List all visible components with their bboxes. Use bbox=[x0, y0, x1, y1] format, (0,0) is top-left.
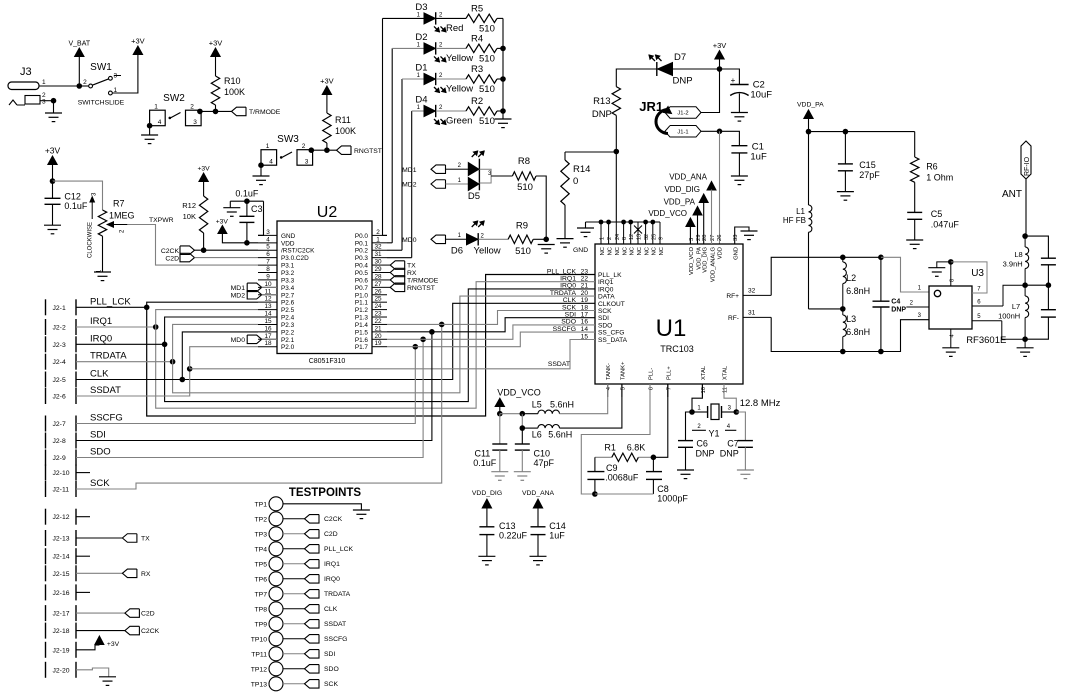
svg-text:U2: U2 bbox=[317, 204, 338, 221]
svg-text:6.8K: 6.8K bbox=[627, 443, 646, 453]
net flag C2D bbox=[305, 530, 320, 539]
svg-text:R8: R8 bbox=[518, 156, 530, 167]
svg-text:D2: D2 bbox=[415, 32, 427, 43]
inductor L6 5.6nH bbox=[522, 427, 538, 429]
svg-text:+3V: +3V bbox=[131, 37, 145, 46]
net flag C2D bbox=[180, 253, 195, 262]
wire SSCFG J2-7 to U2 P1.7 and U1 SS_CFG bbox=[76, 347, 415, 424]
U2 pin 11 P2.7 bbox=[258, 294, 277, 296]
wire J2-12 stub bbox=[76, 516, 90, 518]
U3 pin 5 to bottom node bbox=[972, 320, 1002, 322]
wire SDI J2-8 to U2 P1.5 and U1 SDI bbox=[76, 332, 432, 441]
svg-text:1: 1 bbox=[154, 104, 158, 111]
ground bbox=[141, 134, 158, 136]
svg-text:SSCFG: SSCFG bbox=[324, 636, 347, 643]
svg-text:J2-4: J2-4 bbox=[53, 359, 66, 366]
net flag TX bbox=[390, 261, 405, 270]
svg-text:TP3: TP3 bbox=[255, 531, 268, 538]
net flag MD0 bbox=[247, 335, 262, 344]
svg-text:C2CK: C2CK bbox=[161, 248, 180, 255]
svg-text:VDD_PA: VDD_PA bbox=[696, 247, 702, 270]
inductor L1 HF FB bbox=[808, 132, 810, 205]
svg-text:MD2: MD2 bbox=[402, 182, 417, 189]
inductor L8 3.9nH bbox=[1024, 236, 1026, 247]
wire RF- rail bbox=[771, 317, 843, 351]
wire SW2 pin2 node bbox=[200, 110, 232, 112]
svg-text:RF-: RF- bbox=[728, 315, 739, 322]
svg-text:J2-11: J2-11 bbox=[53, 487, 70, 494]
svg-text:J2-8: J2-8 bbox=[53, 438, 66, 445]
testpoint TP11 bbox=[269, 647, 283, 661]
inductor L3 6.8nH bbox=[843, 315, 847, 337]
wire D7 to R13 bbox=[616, 69, 657, 87]
svg-text:TP7: TP7 bbox=[255, 591, 268, 598]
svg-text:+3V: +3V bbox=[197, 166, 210, 173]
svg-text:33: 33 bbox=[733, 235, 739, 241]
LED D1 Yellow bbox=[424, 73, 435, 84]
wire IRQ1 J2-2 to U2 P2.5 and U1 IRQ1 bbox=[76, 326, 156, 328]
svg-text:J2-16: J2-16 bbox=[53, 590, 70, 597]
ground bbox=[906, 239, 923, 241]
svg-text:P0.2: P0.2 bbox=[355, 248, 369, 255]
capacitor C14 1uF bbox=[531, 526, 546, 528]
svg-text:8: 8 bbox=[266, 266, 270, 273]
svg-text:P0.7: P0.7 bbox=[355, 285, 369, 292]
svg-text:24: 24 bbox=[615, 234, 621, 240]
U2 pin 21 P1.5 bbox=[372, 331, 387, 333]
U2 pin 32 P0.2 bbox=[372, 249, 387, 251]
svg-text:1000pF: 1000pF bbox=[657, 494, 688, 504]
svg-text:NC: NC bbox=[659, 247, 665, 255]
wire J2-14 stub bbox=[76, 555, 90, 557]
svg-text:R14: R14 bbox=[573, 164, 590, 175]
svg-text:P0.5: P0.5 bbox=[355, 270, 369, 277]
svg-text:C14: C14 bbox=[549, 521, 566, 531]
wire R9 to ground bbox=[533, 238, 546, 240]
wire D6 to R9 bbox=[479, 238, 509, 240]
svg-text:VDD_ANALG: VDD_ANALG bbox=[710, 247, 716, 283]
svg-text:R1: R1 bbox=[604, 443, 616, 453]
U1 NC pin 13 bbox=[637, 222, 639, 244]
no-connect X on pin 13 bbox=[634, 226, 642, 234]
svg-text:0: 0 bbox=[573, 176, 578, 187]
svg-text:VDD_PA: VDD_PA bbox=[797, 102, 824, 109]
svg-text:Green: Green bbox=[446, 116, 472, 127]
net flag CLK bbox=[305, 605, 320, 614]
ground bbox=[223, 207, 240, 209]
svg-text:SSCFG: SSCFG bbox=[90, 413, 123, 424]
resistor R14 0 bbox=[564, 152, 566, 160]
svg-text:D3: D3 bbox=[415, 2, 427, 13]
svg-text:J2-10: J2-10 bbox=[53, 470, 70, 477]
svg-text:TP9: TP9 bbox=[255, 621, 268, 628]
U2 pin 25 P1.1 bbox=[372, 301, 387, 303]
svg-text:SDO: SDO bbox=[561, 319, 576, 326]
wire SW1 to +3V bbox=[112, 60, 138, 93]
svg-text:SWITCHSLIDE: SWITCHSLIDE bbox=[78, 100, 125, 107]
RF transceiver U1 TRC103 bbox=[595, 244, 743, 384]
svg-text:5: 5 bbox=[620, 387, 626, 390]
svg-text:P0.1: P0.1 bbox=[355, 240, 369, 247]
svg-text:6: 6 bbox=[266, 251, 270, 258]
ground bbox=[514, 471, 531, 473]
svg-text:1: 1 bbox=[42, 79, 46, 86]
svg-text:3: 3 bbox=[193, 119, 197, 126]
net flag MD1 bbox=[431, 165, 446, 174]
svg-text:24: 24 bbox=[374, 303, 382, 310]
net flag SSDAT bbox=[305, 620, 320, 629]
svg-text:SDI: SDI bbox=[565, 312, 576, 319]
resistor R4 510 bbox=[466, 44, 497, 52]
svg-text:P1.7: P1.7 bbox=[355, 344, 369, 351]
svg-text:TP8: TP8 bbox=[255, 606, 268, 613]
svg-text:CLK: CLK bbox=[90, 369, 109, 380]
wire VDD_PA rail bbox=[809, 131, 915, 133]
svg-text:RX: RX bbox=[407, 270, 417, 277]
svg-text:2: 2 bbox=[83, 79, 87, 86]
wire top rail to U3 pin1 bbox=[881, 257, 929, 292]
svg-text:CLOCKWISE: CLOCKWISE bbox=[88, 222, 94, 258]
svg-text:9: 9 bbox=[266, 273, 270, 280]
wire PLL_LCK J2-1 to U2 P2.6 and U1 PLL_LK bbox=[76, 306, 147, 308]
U2 pin 1 P0.1 bbox=[372, 242, 387, 244]
svg-text:SSDAT: SSDAT bbox=[90, 385, 121, 396]
wire U1 XTAL11 to Y1 bbox=[724, 384, 736, 412]
wire SDO J2-9 to U2 P1.6 and U1 SDO bbox=[76, 339, 423, 457]
U1 NC pin 24 bbox=[615, 222, 617, 244]
svg-text:P3.3: P3.3 bbox=[281, 277, 295, 284]
net flag TX bbox=[76, 537, 122, 539]
LED D4 Green bbox=[424, 105, 435, 116]
svg-text:P2.4: P2.4 bbox=[281, 315, 295, 322]
svg-text:29: 29 bbox=[374, 266, 382, 273]
svg-text:R11: R11 bbox=[335, 115, 351, 125]
svg-text:510: 510 bbox=[479, 116, 495, 127]
net flag C2CK bbox=[180, 246, 195, 255]
svg-text:DNP: DNP bbox=[592, 109, 612, 120]
svg-text:TANK-: TANK- bbox=[606, 363, 612, 380]
svg-text:C5: C5 bbox=[931, 209, 943, 219]
U2 pin 12 P2.6 bbox=[258, 301, 277, 303]
svg-text:J2-1: J2-1 bbox=[53, 305, 66, 312]
U2 pin 29 P0.5 bbox=[372, 272, 387, 274]
svg-text:VDD_ANA: VDD_ANA bbox=[522, 490, 555, 497]
wire RF-IO to antenna node bbox=[1025, 179, 1027, 236]
ground bbox=[353, 509, 370, 511]
svg-text:P2.5: P2.5 bbox=[281, 307, 295, 314]
svg-text:PLL_LCK: PLL_LCK bbox=[324, 546, 354, 553]
wire C2D to U2 pin6 bbox=[195, 257, 259, 259]
svg-text:DNP: DNP bbox=[696, 449, 715, 459]
svg-text:100K: 100K bbox=[335, 126, 356, 136]
svg-text:21: 21 bbox=[374, 325, 382, 332]
svg-text:VDD: VDD bbox=[717, 247, 723, 259]
U2 pin 4 VDD bbox=[258, 242, 277, 244]
svg-text:100nH: 100nH bbox=[998, 312, 1020, 321]
ground bbox=[737, 469, 754, 471]
svg-text:C2CK: C2CK bbox=[324, 516, 343, 523]
jumper arc bbox=[656, 110, 668, 134]
U2 pin 10 P3.4 bbox=[258, 286, 277, 288]
wire bottom rail to U3 pin3 bbox=[881, 320, 929, 352]
svg-text:5.6nH: 5.6nH bbox=[548, 430, 572, 440]
net flag SCK bbox=[305, 680, 320, 689]
wire D3 to R5 bbox=[436, 17, 466, 19]
svg-text:P3.4: P3.4 bbox=[281, 285, 295, 292]
svg-text:PLL+: PLL+ bbox=[666, 366, 672, 380]
svg-text:100K: 100K bbox=[224, 87, 245, 97]
svg-text:TANK+: TANK+ bbox=[620, 361, 626, 380]
svg-text:TP1: TP1 bbox=[255, 501, 268, 508]
svg-text:V_BAT: V_BAT bbox=[68, 41, 90, 48]
svg-text:10: 10 bbox=[264, 281, 272, 288]
svg-text:13: 13 bbox=[637, 234, 643, 240]
svg-text:P0.4: P0.4 bbox=[355, 263, 369, 270]
wire VDD node to C1 bbox=[720, 131, 740, 145]
dual LED D5 bbox=[468, 163, 479, 176]
ground bbox=[677, 469, 694, 471]
balun U3 RF3601E bbox=[929, 286, 972, 329]
wire MD1 to D5 pin2 bbox=[446, 168, 462, 170]
svg-text:SW2: SW2 bbox=[163, 93, 185, 104]
wire J3 pin1 to SW1 bbox=[39, 85, 79, 87]
resistor R6 1 Ohm bbox=[914, 132, 916, 157]
svg-text:MD2: MD2 bbox=[231, 292, 246, 299]
net flag IRQ0 bbox=[305, 575, 320, 584]
testpoint TP8 bbox=[269, 602, 283, 616]
ground for NC rail bbox=[585, 222, 587, 228]
svg-text:5.6nH: 5.6nH bbox=[550, 399, 574, 409]
svg-text:P0.3: P0.3 bbox=[355, 255, 369, 262]
power flag +3V bbox=[48, 156, 57, 165]
wire SCK J2-11 to U2 P1.4 and U1 SCK bbox=[76, 324, 442, 489]
svg-text:16: 16 bbox=[264, 325, 272, 332]
svg-text:R10: R10 bbox=[224, 76, 241, 86]
capacitor C12 0.1uF bbox=[52, 181, 54, 198]
svg-text:11: 11 bbox=[723, 387, 729, 393]
ground bbox=[478, 555, 495, 557]
wire TXPWR to U2 P3.1 bbox=[127, 225, 258, 266]
svg-text:J2-2: J2-2 bbox=[53, 325, 66, 332]
net flag TRDATA bbox=[305, 590, 320, 599]
svg-text:J1-2: J1-2 bbox=[677, 111, 688, 117]
svg-text:C2D: C2D bbox=[165, 256, 179, 263]
U2 pin 3 GND bbox=[258, 234, 277, 236]
svg-text:P2.0: P2.0 bbox=[281, 344, 295, 351]
capacitor antenna bottom bbox=[1047, 285, 1049, 310]
testpoint TP13 bbox=[269, 677, 283, 691]
U2 pin 27 P0.7 bbox=[372, 286, 387, 288]
wire R13 to NC rail bbox=[615, 115, 617, 222]
svg-text:0.22uF: 0.22uF bbox=[499, 531, 528, 541]
svg-text:D5: D5 bbox=[468, 191, 480, 202]
svg-text:VDD_PA: VDD_PA bbox=[664, 198, 696, 207]
svg-text:J2-19: J2-19 bbox=[53, 647, 70, 654]
svg-text:T/RMODE: T/RMODE bbox=[407, 277, 439, 284]
svg-text:25: 25 bbox=[651, 234, 657, 240]
power flag +3V bbox=[133, 46, 142, 55]
ground bbox=[45, 112, 62, 114]
svg-text:.0068uF: .0068uF bbox=[605, 473, 639, 483]
svg-text:VDD_DIG: VDD_DIG bbox=[664, 185, 700, 194]
svg-text:P0.6: P0.6 bbox=[355, 277, 369, 284]
svg-text:25: 25 bbox=[374, 296, 382, 303]
svg-text:IRQ0: IRQ0 bbox=[324, 576, 340, 583]
svg-text:0.1uF: 0.1uF bbox=[64, 201, 88, 211]
wire D2 to R4 bbox=[436, 47, 466, 49]
svg-text:SDI: SDI bbox=[324, 651, 335, 658]
svg-text:R6: R6 bbox=[926, 162, 938, 172]
net flag SDO bbox=[305, 665, 320, 674]
resistor R5 510 bbox=[466, 14, 497, 22]
capacitor C7 DNP bbox=[736, 412, 745, 441]
wire U1 XTAL10 to Y1 bbox=[692, 384, 702, 412]
ground bbox=[1017, 347, 1034, 349]
svg-text:510: 510 bbox=[479, 84, 495, 95]
svg-text:NC: NC bbox=[644, 247, 650, 255]
LED D6 Yellow bbox=[467, 234, 478, 245]
svg-text:28: 28 bbox=[702, 235, 708, 241]
net flag PLL_LCK bbox=[305, 545, 320, 554]
ground bbox=[538, 244, 555, 246]
svg-text:ANT: ANT bbox=[1002, 189, 1022, 200]
svg-text:L2: L2 bbox=[846, 273, 856, 283]
svg-text:22: 22 bbox=[374, 318, 382, 325]
U2 pin 18 P2.0 bbox=[258, 346, 277, 348]
svg-text:+3V: +3V bbox=[216, 219, 229, 226]
svg-text:PLL_LCK: PLL_LCK bbox=[547, 268, 577, 275]
U3 pin 8 and 7 to ground bbox=[950, 262, 952, 286]
svg-text:27: 27 bbox=[710, 235, 716, 241]
svg-text:IRQ0: IRQ0 bbox=[90, 333, 112, 344]
capacitor C10 47pF bbox=[521, 428, 523, 444]
svg-text:IRQ1: IRQ1 bbox=[598, 279, 614, 286]
inductor L2 6.8nH bbox=[843, 262, 847, 284]
capacitor C6 DNP bbox=[686, 412, 693, 441]
wire IRQ0 J2-3 to U2 P2.4 and U1 IRQ0 bbox=[76, 343, 165, 345]
svg-text:TX: TX bbox=[407, 263, 416, 270]
wire U1 PLL- to loop filter bbox=[581, 384, 650, 494]
svg-text:C2D: C2D bbox=[324, 531, 338, 538]
svg-text:J2-17: J2-17 bbox=[53, 611, 70, 618]
svg-text:R7: R7 bbox=[113, 199, 125, 209]
svg-text:+3V: +3V bbox=[320, 77, 334, 86]
wire VDD node down to U1 VDD pin bbox=[719, 131, 721, 244]
U1 NC pin 2 bbox=[608, 222, 610, 244]
svg-text:2: 2 bbox=[190, 104, 194, 111]
svg-text:47pF: 47pF bbox=[534, 458, 555, 468]
svg-text:2: 2 bbox=[607, 237, 613, 240]
svg-text:C15: C15 bbox=[859, 160, 876, 170]
ground bbox=[530, 555, 547, 557]
svg-text:MD1: MD1 bbox=[231, 285, 246, 292]
svg-text:3: 3 bbox=[266, 229, 270, 236]
svg-text:PLL_LK: PLL_LK bbox=[598, 272, 622, 279]
testpoint TP2 bbox=[269, 512, 283, 526]
svg-text:R4: R4 bbox=[471, 33, 483, 44]
net flag MD1 bbox=[247, 283, 262, 292]
svg-text:TP5: TP5 bbox=[255, 561, 268, 568]
svg-text:28: 28 bbox=[374, 273, 382, 280]
testpoint TP6 bbox=[269, 572, 283, 586]
svg-text:MD0: MD0 bbox=[231, 337, 246, 344]
svg-text:31: 31 bbox=[748, 310, 756, 317]
svg-text:RF-IO: RF-IO bbox=[1024, 156, 1031, 176]
wire TRDATA J2-4 to U2 P2.3 and U1 DATA bbox=[76, 361, 173, 363]
power flag +3V at J2-19 bbox=[76, 645, 95, 650]
ground bbox=[44, 224, 61, 226]
svg-text:P2.7: P2.7 bbox=[281, 292, 295, 299]
svg-text:15: 15 bbox=[264, 318, 272, 325]
ground bbox=[253, 175, 270, 177]
svg-text:TP13: TP13 bbox=[251, 681, 267, 688]
testpoint TP7 bbox=[269, 587, 283, 601]
LED D3 Red bbox=[424, 13, 435, 24]
svg-text:J2-20: J2-20 bbox=[53, 667, 70, 674]
U2 pin 19 P1.7 bbox=[372, 346, 387, 348]
svg-text:1uF: 1uF bbox=[549, 531, 565, 541]
svg-text:TP2: TP2 bbox=[255, 516, 268, 523]
svg-text:Y1: Y1 bbox=[708, 429, 719, 439]
wire +3V node to C2 bbox=[720, 69, 740, 85]
svg-text:RNGTST: RNGTST bbox=[354, 148, 382, 155]
U1 NC pins tie rail bbox=[586, 221, 661, 223]
svg-text:J2-15: J2-15 bbox=[53, 571, 70, 578]
svg-text:IRQ0: IRQ0 bbox=[560, 283, 576, 290]
svg-text:IRQ0: IRQ0 bbox=[598, 286, 614, 293]
resistor R12 10K bbox=[199, 173, 208, 182]
wire +3V node to R7 bbox=[53, 181, 103, 210]
svg-text:Yellow: Yellow bbox=[446, 84, 473, 95]
svg-text:GND: GND bbox=[734, 247, 740, 260]
U3 pin 6 to L7/L8 node bbox=[972, 305, 1003, 307]
svg-text:1: 1 bbox=[600, 237, 606, 240]
svg-text:TRDATA: TRDATA bbox=[550, 290, 577, 297]
U2 pin 31 P0.3 bbox=[372, 257, 387, 259]
svg-text:VDD_VCO: VDD_VCO bbox=[689, 247, 695, 276]
svg-text:SS_DATA: SS_DATA bbox=[598, 337, 628, 344]
svg-text:9: 9 bbox=[659, 237, 665, 240]
svg-text:C10: C10 bbox=[534, 449, 551, 459]
svg-text:IRQ1: IRQ1 bbox=[560, 276, 576, 283]
svg-text:CLK: CLK bbox=[563, 297, 577, 304]
svg-text:SS_CFG: SS_CFG bbox=[598, 330, 624, 337]
testpoint TP3 bbox=[269, 527, 283, 541]
svg-text:T/RMODE: T/RMODE bbox=[249, 109, 281, 116]
svg-text:SDI: SDI bbox=[598, 315, 609, 322]
svg-text:J1-1: J1-1 bbox=[677, 130, 688, 136]
svg-text:CLK: CLK bbox=[324, 606, 338, 613]
ground bbox=[491, 471, 508, 473]
capacitor C15 27pF bbox=[844, 132, 846, 164]
svg-text:R12: R12 bbox=[182, 201, 196, 210]
svg-text:26: 26 bbox=[717, 235, 723, 241]
svg-text:D4: D4 bbox=[415, 95, 427, 106]
net flag RX bbox=[390, 268, 405, 277]
capacitor C8 1000pF bbox=[652, 457, 654, 471]
svg-text:NC: NC bbox=[630, 247, 636, 255]
svg-text:C2CK: C2CK bbox=[141, 628, 160, 635]
svg-text:+3V: +3V bbox=[45, 146, 61, 156]
U1 NC pin 1 bbox=[600, 222, 602, 244]
svg-text:RX: RX bbox=[141, 571, 151, 578]
svg-text:SSDAT: SSDAT bbox=[548, 361, 570, 368]
wire U1 PLL+ to C8 bbox=[653, 384, 667, 457]
svg-text:TP12: TP12 bbox=[251, 666, 267, 673]
net flag RNGTST bbox=[337, 146, 352, 155]
wire R14 top to R13 node bbox=[565, 151, 616, 153]
svg-text:TP11: TP11 bbox=[251, 651, 267, 658]
